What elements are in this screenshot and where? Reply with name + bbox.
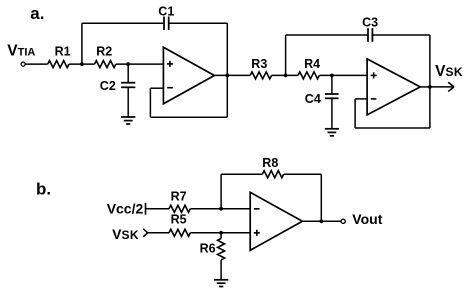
wire xyxy=(220,260,222,280)
wire xyxy=(429,35,431,128)
node F junction xyxy=(219,231,223,235)
wire xyxy=(190,232,250,234)
wire xyxy=(127,64,129,83)
wire xyxy=(148,232,169,234)
wire xyxy=(354,99,356,128)
svg-text:R8: R8 xyxy=(262,156,278,170)
wire xyxy=(150,87,163,89)
wire xyxy=(220,233,222,239)
svg-text:VSK: VSK xyxy=(435,63,463,80)
wire xyxy=(82,22,164,24)
resistor R7 xyxy=(169,205,190,212)
wire xyxy=(331,75,333,94)
svg-text:Vout: Vout xyxy=(352,211,382,227)
node C junction xyxy=(284,74,288,78)
ground xyxy=(325,129,339,136)
svg-text:R6: R6 xyxy=(200,242,216,256)
wire xyxy=(150,116,227,118)
op-amp U1 xyxy=(163,47,214,104)
wire xyxy=(286,34,368,36)
resistor R2 xyxy=(95,61,116,68)
wire xyxy=(190,208,250,210)
terminal Vout xyxy=(341,219,345,223)
ground xyxy=(121,117,135,124)
wire xyxy=(355,98,367,100)
op-amp U2 xyxy=(367,59,420,115)
wire xyxy=(272,74,298,76)
capacitor C2 xyxy=(121,83,135,88)
svg-text:b.: b. xyxy=(36,180,51,199)
resistor R4 xyxy=(298,72,319,79)
node E junction xyxy=(219,207,223,211)
wire xyxy=(226,23,228,117)
terminal VTIA xyxy=(21,62,25,66)
wire xyxy=(320,174,322,221)
node A junction xyxy=(80,62,84,66)
node R8 output junction xyxy=(319,219,323,223)
wire xyxy=(25,63,47,65)
wire xyxy=(331,98,333,129)
wire xyxy=(285,35,287,75)
svg-text:R2: R2 xyxy=(96,44,112,58)
svg-text:R4: R4 xyxy=(304,57,320,71)
svg-text:C4: C4 xyxy=(305,92,321,106)
wire xyxy=(319,74,367,76)
svg-text:C3: C3 xyxy=(362,15,378,29)
node D junction xyxy=(330,74,334,78)
node U1 output junction xyxy=(225,74,229,78)
capacitor C4 xyxy=(325,94,339,98)
wire xyxy=(221,173,262,175)
svg-text:C1: C1 xyxy=(158,5,174,19)
wire VSK output arrow xyxy=(430,82,454,91)
svg-text:R7: R7 xyxy=(171,190,187,204)
resistor R8 xyxy=(262,171,283,178)
wire xyxy=(214,74,250,76)
wire xyxy=(69,63,94,65)
svg-text:Vcc/2: Vcc/2 xyxy=(107,201,144,217)
wire xyxy=(81,23,83,64)
wire xyxy=(127,87,129,117)
svg-text:R3: R3 xyxy=(251,57,267,71)
wire xyxy=(220,174,222,209)
wire xyxy=(149,88,151,117)
svg-text:R5: R5 xyxy=(171,213,187,227)
svg-text:a.: a. xyxy=(30,4,44,23)
svg-text:VSK: VSK xyxy=(112,226,139,242)
wire xyxy=(420,86,430,88)
terminal Vcc/2 xyxy=(145,203,147,215)
node B junction xyxy=(126,62,130,66)
resistor R6 xyxy=(218,239,225,260)
node U2 output junction xyxy=(428,85,432,89)
terminal VSK xyxy=(143,229,148,237)
wire xyxy=(372,34,430,36)
wire xyxy=(355,127,430,129)
op-amp U3 xyxy=(250,192,302,250)
capacitor C3 xyxy=(368,28,372,42)
resistor R3 xyxy=(250,72,271,79)
resistor R1 xyxy=(48,61,69,68)
capacitor C1 xyxy=(164,17,169,31)
wire xyxy=(302,220,340,222)
svg-text:R1: R1 xyxy=(55,44,71,58)
wire xyxy=(146,208,170,210)
resistor R5 xyxy=(169,229,190,236)
ground xyxy=(214,280,228,287)
wire xyxy=(284,173,322,175)
svg-text:C2: C2 xyxy=(100,79,116,93)
wire xyxy=(169,22,228,24)
wire xyxy=(116,63,164,65)
